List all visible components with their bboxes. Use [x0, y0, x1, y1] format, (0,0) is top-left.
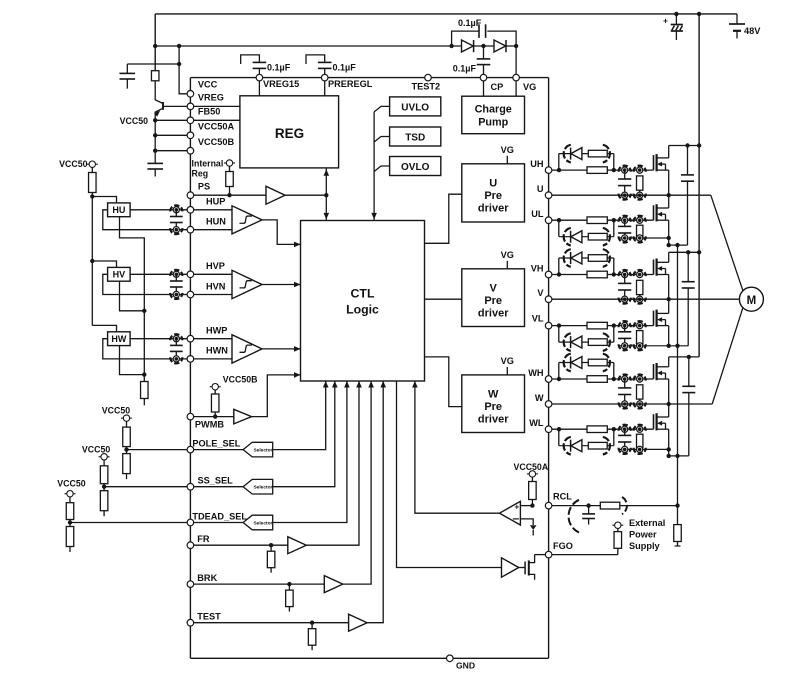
svg-text:TDEAD_SEL: TDEAD_SEL	[192, 511, 247, 521]
svg-text:VCC50: VCC50	[102, 405, 130, 415]
svg-text:UVLO: UVLO	[401, 103, 429, 114]
svg-text:UH: UH	[530, 159, 544, 169]
svg-text:V: V	[490, 282, 498, 294]
svg-text:TEST2: TEST2	[412, 82, 441, 92]
svg-text:VCC50: VCC50	[82, 444, 110, 454]
svg-text:PS: PS	[198, 182, 210, 192]
svg-text:FR: FR	[197, 534, 210, 544]
svg-text:Pump: Pump	[478, 117, 508, 129]
svg-text:Pre: Pre	[484, 295, 502, 307]
svg-text:VG: VG	[501, 250, 514, 260]
svg-text:U: U	[489, 178, 497, 190]
svg-text:HWN: HWN	[206, 346, 228, 356]
svg-text:HVP: HVP	[206, 261, 225, 271]
svg-text:VREG15: VREG15	[263, 79, 299, 89]
svg-text:HUP: HUP	[206, 197, 225, 207]
svg-text:0.1µF: 0.1µF	[267, 63, 291, 73]
svg-text:Pre: Pre	[484, 401, 502, 413]
svg-text:VCC50A: VCC50A	[513, 462, 548, 472]
svg-text:U: U	[537, 184, 544, 194]
svg-text:Selector: Selector	[253, 447, 272, 453]
svg-text:SS_SEL: SS_SEL	[198, 476, 234, 486]
svg-text:HVN: HVN	[206, 281, 226, 291]
svg-text:TEST: TEST	[197, 612, 221, 622]
svg-text:TSD: TSD	[405, 133, 425, 144]
svg-text:HW: HW	[111, 334, 126, 344]
svg-text:PREREGL: PREREGL	[328, 79, 373, 89]
svg-text:PWMB: PWMB	[195, 420, 224, 430]
svg-text:W: W	[488, 388, 499, 400]
svg-text:+: +	[663, 16, 668, 26]
svg-text:0.1µF: 0.1µF	[458, 18, 482, 28]
svg-text:Logic: Logic	[346, 303, 379, 317]
svg-text:HWP: HWP	[206, 326, 227, 336]
svg-text:POLE_SEL: POLE_SEL	[192, 438, 240, 448]
svg-text:VCC: VCC	[198, 80, 218, 90]
svg-text:VREG: VREG	[198, 92, 224, 102]
svg-text:VCC50: VCC50	[59, 159, 87, 169]
svg-text:FB50: FB50	[198, 107, 220, 117]
svg-text:VG: VG	[501, 145, 514, 155]
svg-text:Internal: Internal	[192, 158, 224, 168]
svg-text:VL: VL	[532, 314, 544, 324]
svg-text:WL: WL	[529, 418, 544, 428]
svg-text:BRK: BRK	[197, 573, 217, 583]
svg-text:RCL: RCL	[553, 492, 572, 502]
svg-text:driver: driver	[478, 307, 509, 319]
svg-text:W: W	[535, 393, 544, 403]
svg-text:GND: GND	[456, 661, 475, 671]
svg-text:VG: VG	[523, 82, 536, 92]
svg-text:VCC50B: VCC50B	[198, 137, 235, 147]
svg-text:Supply: Supply	[629, 541, 661, 551]
svg-text:FGO: FGO	[553, 541, 573, 551]
svg-text:VCC50B: VCC50B	[223, 374, 258, 384]
svg-text:WH: WH	[528, 368, 544, 378]
svg-text:0.1µF: 0.1µF	[453, 64, 477, 74]
svg-text:VG: VG	[501, 356, 514, 366]
svg-text:CP: CP	[491, 82, 504, 92]
svg-text:Power: Power	[629, 530, 657, 540]
svg-text:VH: VH	[531, 264, 544, 274]
svg-text:0.1µF: 0.1µF	[333, 63, 357, 73]
svg-text:VCC50A: VCC50A	[198, 122, 235, 132]
svg-text:+: +	[514, 502, 519, 511]
svg-text:driver: driver	[478, 203, 509, 215]
svg-text:Pre: Pre	[484, 190, 502, 202]
svg-text:driver: driver	[478, 414, 509, 426]
svg-text:Reg: Reg	[192, 168, 209, 178]
svg-text:External: External	[629, 518, 665, 528]
svg-text:48V: 48V	[744, 26, 761, 36]
svg-text:VCC50: VCC50	[120, 116, 148, 126]
svg-text:VCC50: VCC50	[57, 479, 85, 489]
svg-text:OVLO: OVLO	[401, 162, 430, 173]
svg-text:HU: HU	[112, 205, 125, 215]
svg-text:HV: HV	[113, 270, 126, 280]
svg-text:CTL: CTL	[351, 286, 375, 300]
svg-text:HUN: HUN	[206, 217, 226, 227]
svg-text:UL: UL	[531, 209, 544, 219]
svg-text:V: V	[537, 288, 544, 298]
svg-text:REG: REG	[275, 126, 304, 141]
svg-text:Selector: Selector	[253, 485, 272, 491]
svg-text:M: M	[747, 295, 757, 307]
svg-text:Selector: Selector	[253, 520, 272, 526]
svg-text:Charge: Charge	[475, 103, 512, 115]
